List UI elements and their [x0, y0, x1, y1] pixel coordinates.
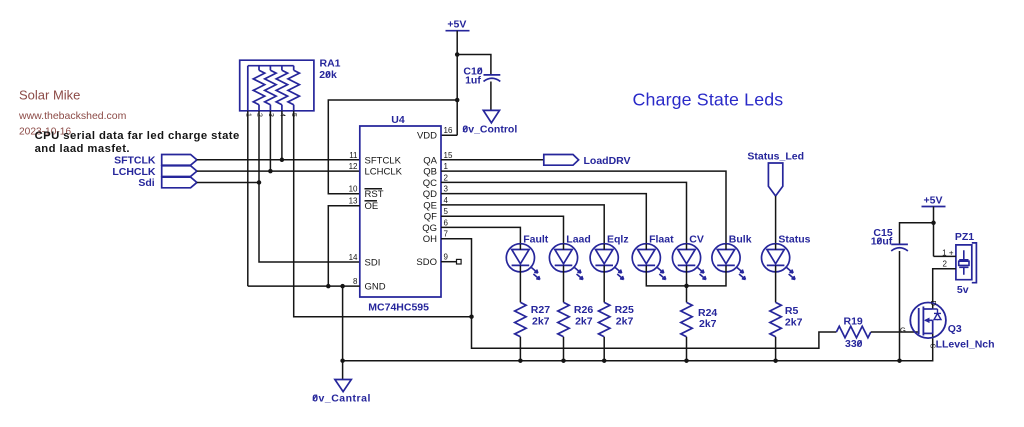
wire RA1 pin3 to LCHCLK [269, 111, 271, 171]
svg-text:Solar Mike: Solar Mike [19, 88, 80, 103]
wire +5V rail to RST [328, 100, 457, 194]
LED Laad [549, 234, 590, 280]
svg-text:RA1: RA1 [320, 58, 341, 70]
svg-text:R25: R25 [615, 304, 634, 316]
svg-text:2: 2 [943, 260, 948, 269]
wire +5V stem to VDD [441, 31, 457, 136]
svg-text:10uf: 10uf [871, 236, 893, 248]
wire RA1 pin2 to Sdi/SDI [259, 111, 360, 262]
LED Status [762, 234, 811, 280]
node gate line junction [469, 314, 474, 319]
wire QA row [441, 159, 544, 161]
LED Fault [506, 234, 548, 280]
svg-text:+5V: +5V [447, 19, 466, 31]
svg-text:13: 13 [349, 197, 358, 206]
piezo PZ1 5v [942, 231, 976, 296]
wire SFTCLK row [197, 159, 360, 161]
svg-text:LoadDRV: LoadDRV [584, 155, 631, 167]
op-amp U4 MC74HC595 shift register [349, 114, 453, 314]
wire ground rail [343, 333, 933, 360]
svg-text:CPU serial data far led charge: CPU serial data far led charge state [35, 130, 240, 142]
wire C15 to rail [899, 251, 901, 361]
svg-text:2k7: 2k7 [699, 318, 717, 330]
node R5 rail junction [773, 358, 778, 363]
svg-text:QF: QF [424, 212, 437, 223]
svg-text:0v_Cantral: 0v_Cantral [312, 392, 371, 404]
svg-text:U4: U4 [391, 114, 405, 126]
wire SDO stub [441, 261, 457, 263]
wire RA1 pin1 to GND row [247, 111, 249, 286]
wire Status_Led to Status LED [775, 196, 777, 244]
node R24 rail junction [684, 358, 689, 363]
wire R5 bottom lead [775, 337, 777, 361]
node R27 rail junction [518, 358, 523, 363]
wire QG to Fault LED [441, 227, 520, 243]
svg-text:1: 1 [444, 162, 449, 171]
svg-text:SFTCLK: SFTCLK [365, 155, 402, 166]
svg-text:MC74HC595: MC74HC595 [368, 302, 429, 314]
node rail/ground junction [340, 358, 345, 363]
svg-text:Fault: Fault [523, 234, 549, 246]
node SFTCLK junction [280, 158, 285, 163]
wire QD to Flaat LED [441, 194, 646, 244]
wire QF to Laad LED [441, 216, 564, 244]
svg-text:OH: OH [423, 234, 437, 245]
svg-text:1uf: 1uf [465, 74, 481, 86]
capacitor C15 10uf [871, 227, 908, 251]
wire GND drop to rail [342, 286, 344, 379]
svg-text:Status_Led: Status_Led [747, 150, 804, 162]
LED Eqlz [590, 234, 628, 280]
svg-text:LCHCLK: LCHCLK [365, 167, 403, 178]
svg-text:0v_Control: 0v_Control [462, 124, 517, 136]
svg-text:12: 12 [349, 162, 358, 171]
power +5V (right) [922, 195, 946, 207]
wire RA1 pin5 to gate line [294, 111, 472, 317]
svg-text:Status: Status [778, 234, 810, 246]
resistor R25 2k7 [599, 302, 635, 336]
wire LED anode stubs [520, 244, 775, 250]
node Sdi junction [257, 180, 262, 185]
node R25 rail junction [602, 358, 607, 363]
resistor R19 330 [836, 316, 870, 350]
wire Sdi row [197, 181, 259, 183]
svg-text:330: 330 [845, 338, 863, 350]
svg-text:www.thebackshed.com: www.thebackshed.com [18, 110, 127, 122]
svg-text:R19: R19 [844, 316, 863, 328]
wire QE to Eqlz LED [441, 205, 604, 244]
resistor R5 2k7 [770, 302, 803, 336]
node cathode bus junction [684, 284, 689, 289]
svg-text:9: 9 [444, 253, 449, 262]
svg-text:Q3: Q3 [948, 323, 962, 335]
svg-text:7: 7 [444, 230, 449, 239]
svg-text:Flaat: Flaat [649, 234, 674, 246]
wire Laad cathode [563, 266, 565, 303]
svg-text:Eqlz: Eqlz [607, 234, 629, 246]
svg-text:VDD: VDD [417, 131, 437, 142]
svg-text:5v: 5v [957, 284, 969, 296]
svg-text:5: 5 [444, 207, 449, 216]
wire R24 bottom lead [686, 337, 688, 361]
svg-text:QG: QG [422, 223, 437, 234]
node +5V/C10 junction [455, 52, 460, 57]
svg-text:11: 11 [349, 151, 358, 160]
LED Flaat [632, 234, 674, 280]
node LCHCLK junction [268, 169, 273, 174]
power +5V (top) [446, 19, 470, 31]
svg-text:SDO: SDO [416, 257, 437, 268]
wire R26 bottom lead [563, 337, 565, 361]
svg-text:R24: R24 [698, 307, 717, 319]
svg-text:QE: QE [423, 200, 437, 211]
svg-text:R5: R5 [785, 305, 799, 317]
ground 0v_Control [462, 110, 517, 135]
svg-text:8: 8 [353, 277, 358, 286]
node OE/GND junction [326, 284, 331, 289]
svg-text:SDI: SDI [365, 258, 381, 269]
svg-text:LLevel_Nch: LLevel_Nch [936, 339, 995, 351]
resistor R26 2k7 [558, 302, 594, 336]
svg-text:QB: QB [423, 167, 437, 178]
wire R25 bottom lead [603, 337, 605, 361]
svg-text:2k7: 2k7 [785, 316, 803, 328]
svg-text:16: 16 [444, 126, 453, 135]
svg-text:SFTCLK: SFTCLK [114, 155, 156, 167]
svg-text:R27: R27 [531, 304, 550, 316]
transistor Q3 LLevel_Nch [900, 301, 995, 351]
svg-text:2k7: 2k7 [532, 315, 550, 327]
svg-text:2k7: 2k7 [616, 315, 634, 327]
svg-text:20k: 20k [319, 69, 337, 81]
wire +5V right stem [933, 207, 935, 257]
svg-text:QA: QA [423, 155, 437, 166]
svg-text:Sdi: Sdi [138, 177, 154, 189]
wire Status cathode [775, 266, 777, 303]
node C15 rail junction [897, 358, 902, 363]
svg-text:GND: GND [365, 282, 386, 293]
svg-text:and laad masfet.: and laad masfet. [35, 143, 130, 155]
wire QB to Bulk LED [441, 171, 726, 244]
wire RA1 pin4 to SFTCLK [281, 111, 283, 160]
svg-text:+5V: +5V [924, 195, 943, 207]
svg-text:Laad: Laad [566, 234, 591, 246]
wire LCHCLK row [197, 170, 360, 172]
svg-text:3: 3 [444, 185, 449, 194]
svg-text:10: 10 [349, 185, 358, 194]
port Sdi [138, 177, 197, 189]
wire GND row [248, 285, 360, 287]
port SFTCLK [114, 155, 197, 167]
svg-text:D: D [929, 301, 938, 307]
wire OE to GND row [328, 206, 360, 286]
wire Eqlz cathode [603, 266, 605, 303]
svg-text:2: 2 [444, 173, 449, 182]
node R26 rail junction [561, 358, 566, 363]
svg-text:R26: R26 [574, 304, 593, 316]
wire C10 to ground [490, 82, 492, 111]
slashed zero marks [313, 68, 882, 401]
svg-text:CV: CV [689, 234, 704, 246]
svg-text:14: 14 [349, 253, 358, 262]
svg-text:15: 15 [444, 151, 453, 160]
no-connect marker SDO [457, 259, 462, 264]
node GND/ground junction [340, 284, 345, 289]
port LoadDRV [544, 155, 631, 168]
svg-text:4: 4 [444, 196, 449, 205]
ground 0v_Cantral [312, 380, 371, 405]
resistor R27 2k7 [515, 302, 551, 336]
capacitor C10 [463, 65, 500, 86]
wire PZ1 pin1 [934, 255, 956, 257]
wire R27 bottom lead [519, 337, 521, 361]
resistor R24 2k7 [681, 302, 718, 336]
node +5V/C15 junction [931, 221, 936, 226]
wire R19 to gate [871, 331, 919, 333]
svg-text:G: G [900, 326, 906, 335]
svg-text:RST: RST [365, 189, 384, 200]
svg-text:QC: QC [423, 178, 437, 189]
svg-text:QD: QD [423, 189, 437, 200]
svg-text:OE: OE [365, 201, 379, 212]
resistor network RA1 20k [240, 58, 341, 118]
wire Flaat/CV/Bulk cathode bus [646, 266, 726, 303]
svg-text:Bulk: Bulk [729, 234, 752, 246]
svg-text:PZ1: PZ1 [955, 231, 974, 243]
LED Bulk [712, 234, 752, 280]
wire PZ1 pin2 to Q3 drain [933, 269, 956, 309]
port Status_Led [747, 150, 804, 196]
wire +5V to C10 [457, 55, 491, 75]
port LCHCLK [112, 166, 197, 178]
svg-text:2k7: 2k7 [575, 315, 593, 327]
LED CV [672, 234, 706, 280]
wire QC to CV LED [441, 182, 687, 243]
wire +5V to C15 [900, 223, 934, 244]
wire Fault cathode [519, 266, 521, 303]
svg-text:Charge State Leds: Charge State Leds [633, 90, 784, 110]
svg-text:6: 6 [444, 218, 449, 227]
svg-text:LCHCLK: LCHCLK [112, 166, 156, 178]
wire OH to R19/gate [441, 239, 836, 349]
node +5V rail junction [455, 98, 460, 103]
